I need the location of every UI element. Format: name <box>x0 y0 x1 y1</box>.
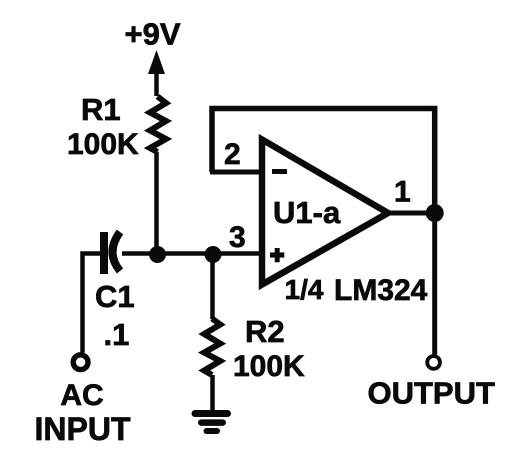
svg-text:OUTPUT: OUTPUT <box>368 376 496 411</box>
wire node B to R2 <box>210 254 215 319</box>
svg-text:100K: 100K <box>233 350 305 383</box>
svg-text:U1-a: U1-a <box>273 195 341 230</box>
resistor R2 <box>204 319 220 376</box>
op-amp U1-a triangle <box>262 140 388 285</box>
node B junction dot <box>205 246 222 263</box>
+9V supply arrow <box>148 50 165 96</box>
wire R2 to ground <box>210 375 215 411</box>
svg-text:1: 1 <box>394 176 411 209</box>
wire output drop <box>432 213 437 355</box>
wire node A to node B <box>157 251 217 256</box>
capacitor C1 <box>104 232 120 274</box>
wire R1 to node A <box>154 152 159 254</box>
svg-text:+9V: +9V <box>124 17 180 52</box>
svg-text:2: 2 <box>224 138 241 171</box>
svg-text:C1: C1 <box>95 279 135 314</box>
svg-text:LM324: LM324 <box>334 274 428 307</box>
wire AC input to capacitor <box>83 254 102 353</box>
op-amp non-inverting input plus sign <box>270 248 284 262</box>
terminal AC INPUT <box>73 355 88 370</box>
svg-text:1/4: 1/4 <box>285 274 324 305</box>
op-amp inverting input minus sign <box>272 169 287 174</box>
terminal OUTPUT <box>427 356 440 369</box>
svg-text:R2: R2 <box>245 314 285 349</box>
pin 1 output wire <box>388 211 435 216</box>
wire capacitor to node A <box>122 251 161 256</box>
output node junction dot <box>426 204 444 222</box>
feedback wire loop <box>212 109 435 214</box>
svg-text:INPUT: INPUT <box>35 411 131 447</box>
svg-text:100K: 100K <box>67 128 139 161</box>
svg-text:R1: R1 <box>81 92 121 127</box>
svg-text:3: 3 <box>229 221 246 254</box>
ground <box>195 414 228 432</box>
svg-text:AC: AC <box>60 379 103 412</box>
svg-text:.1: .1 <box>104 317 130 352</box>
node A junction dot <box>149 246 166 263</box>
pin 2 wire <box>210 170 262 175</box>
wire pin 3 <box>213 251 261 256</box>
resistor R1 <box>150 97 166 153</box>
